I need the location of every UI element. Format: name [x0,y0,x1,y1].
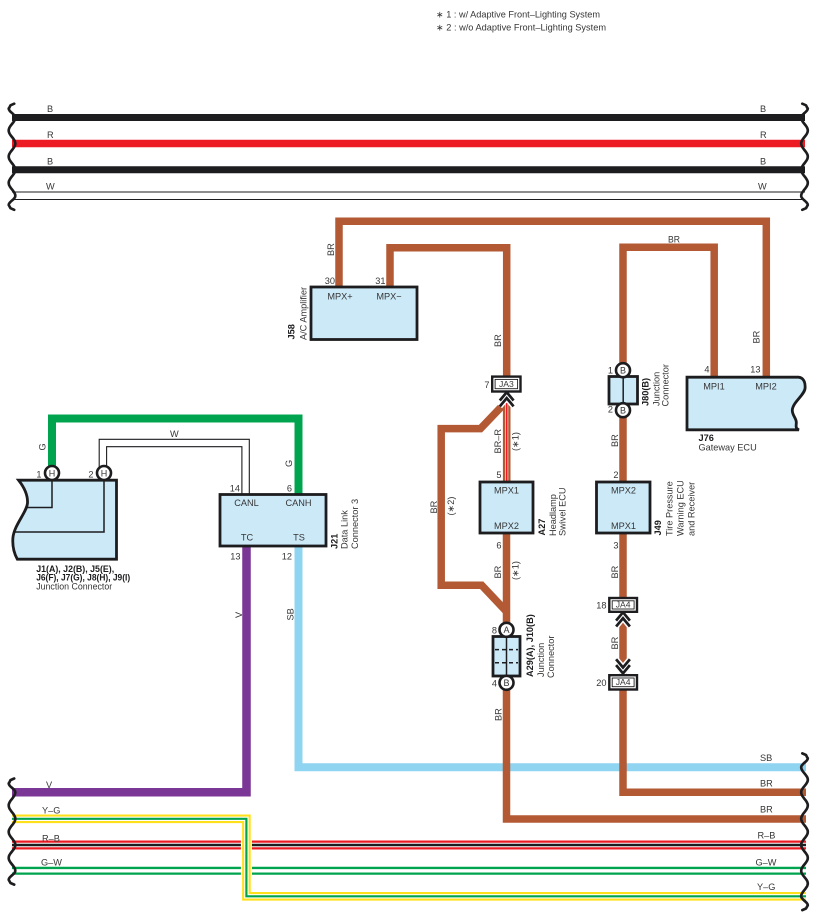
svg-text:G: G [284,460,294,467]
connector JA4 pin18 [609,598,637,612]
svg-text:MPX1: MPX1 [494,486,519,496]
svg-text:BR: BR [494,708,504,721]
svg-text:BR: BR [668,235,680,245]
svg-text:BR: BR [610,434,620,447]
wire BR (*2) bypass branch [441,404,505,611]
svg-text:CANH: CANH [285,498,311,508]
block J49 Tire Pressure Warning ECU [597,482,651,533]
pin circle B A29 [500,676,514,690]
svg-text:(∗2): (∗2) [446,497,456,516]
connector JA3 [492,377,520,392]
svg-text:A/C Amplifier: A/C Amplifier [299,287,309,340]
svg-text:4: 4 [492,679,497,689]
svg-text:4: 4 [704,365,709,375]
wire BR: A29 circle B down, right to edge [507,689,807,819]
svg-text:Tire Pressure: Tire Pressure [665,481,675,536]
svg-text:B: B [47,157,53,167]
svg-text:TC: TC [241,533,254,543]
break symbol bottom-left [9,779,16,885]
svg-text:A: A [503,625,509,635]
break symbol top-left [9,104,16,210]
break symbol bottom-right [801,753,808,910]
svg-text:2: 2 [613,470,618,480]
block J1 Junction Connector [13,480,117,559]
svg-text:B: B [760,104,766,114]
wire bus B (second) [12,166,805,173]
svg-text:TS: TS [293,533,305,543]
svg-text:J80(B): J80(B) [641,378,651,406]
svg-text:12: 12 [282,552,292,562]
svg-text:Data Link: Data Link [340,510,350,549]
svg-text:1: 1 [36,470,41,480]
svg-text:Junction Connector: Junction Connector [36,581,112,591]
pin circle B top J80 [616,363,630,377]
svg-text:14: 14 [230,484,240,494]
block J21 Data Link Connector 3 [220,495,326,547]
svg-text:JA4: JA4 [616,677,631,687]
svg-text:Connector: Connector [546,636,556,678]
svg-text:31: 31 [375,276,385,286]
svg-text:B: B [503,678,509,688]
svg-text:Y–G: Y–G [757,882,775,892]
svg-text:B: B [620,406,626,416]
svg-text:SB: SB [286,608,296,620]
svg-text:A29(A), J10(B): A29(A), J10(B) [525,614,535,677]
wire BR-R striped: JA3 to A27 MPX1 pin5 [503,392,511,483]
wire BR: J49 MPX1 down to JA4-18 [619,533,627,599]
svg-text:H: H [49,468,56,478]
svg-text:∗ 2 : w/o Adaptive Front–Light: ∗ 2 : w/o Adaptive Front–Lighting System [436,23,606,33]
wire BR top: J58 MPX+ riser, top run, down to J76 MPI2 [339,221,766,378]
svg-text:J58: J58 [287,324,297,339]
wire W from J1 pin2 to J21 CANL [99,439,249,494]
svg-text:7: 7 [484,380,489,390]
connector JA4 pin20 [609,675,637,689]
wire R-B bus [12,841,806,850]
wire BR: JA4-20 down, right to edge [623,689,806,792]
svg-text:B: B [47,104,53,114]
svg-text:BR: BR [760,805,773,815]
svg-text:MPX+: MPX+ [327,292,352,302]
svg-text:W: W [170,429,179,439]
svg-text:BR: BR [610,565,620,578]
svg-text:BR: BR [493,565,503,578]
svg-text:V: V [234,611,244,618]
svg-text:BR: BR [752,330,762,343]
svg-text:BR: BR [610,636,620,649]
svg-text:∗ 1 : w/ Adaptive Front–Lighti: ∗ 1 : w/ Adaptive Front–Lighting System [436,10,600,20]
wire BR: between JA4 connectors [619,611,627,676]
svg-text:20: 20 [596,678,606,688]
svg-text:J21: J21 [330,534,340,549]
svg-text:18: 18 [596,601,606,611]
svg-text:B: B [620,366,626,376]
pin circle A [500,623,514,637]
svg-text:B: B [760,157,766,167]
svg-text:BR: BR [326,243,336,256]
wire SB from J21 TS to right edge [299,545,807,767]
svg-text:W: W [46,182,55,192]
break symbol top-right [801,104,808,210]
pin circle H 1 [45,466,59,480]
svg-text:W: W [758,182,767,192]
svg-text:SB: SB [760,753,772,763]
svg-text:R–B: R–B [42,834,60,844]
svg-text:6: 6 [496,541,501,551]
svg-text:G–W: G–W [41,858,62,868]
inline connector arrows below JA4-18 [616,612,630,626]
svg-text:Connector: Connector [661,364,671,406]
svg-text:G–W: G–W [756,858,777,868]
inline connector arrows below JA3 [500,392,514,406]
svg-text:MPX1: MPX1 [611,521,636,531]
block J76 Gateway ECU [687,377,805,430]
svg-text:R–B: R–B [758,831,776,841]
svg-text:R: R [760,130,767,140]
svg-text:(∗1): (∗1) [511,561,521,580]
wire bus W [12,191,805,193]
svg-text:13: 13 [230,552,240,562]
inline connector arrows above JA4-20 [616,659,630,673]
svg-text:A27: A27 [537,519,547,536]
svg-text:Swivel ECU: Swivel ECU [558,488,568,537]
pin circle B bottom J80 [616,403,630,417]
svg-text:13: 13 [750,365,760,375]
wire BR: J58 MPX- up over to JA3 [390,248,507,378]
wire BR: A27 MPX2 pin6 down to A29 circle A [503,533,511,624]
svg-text:CANL: CANL [234,498,259,508]
block J80(B) Junction Connector [609,377,638,405]
svg-text:and Receiver: and Receiver [687,482,697,536]
svg-text:MPI1: MPI1 [703,382,724,392]
svg-text:Warning ECU: Warning ECU [676,480,686,536]
svg-text:H: H [101,468,108,478]
svg-text:5: 5 [496,470,501,480]
svg-text:Gateway ECU: Gateway ECU [699,443,757,453]
wire G-W bus [12,867,806,875]
wire bus R [12,140,805,148]
svg-text:Connector 3: Connector 3 [350,499,360,549]
svg-text:Y–G: Y–G [42,806,60,816]
svg-text:JA4: JA4 [616,600,631,610]
svg-text:MPI2: MPI2 [755,382,776,392]
svg-text:MPX2: MPX2 [494,521,519,531]
svg-text:JA3: JA3 [499,379,514,389]
svg-text:3: 3 [613,541,618,551]
svg-text:6: 6 [287,484,292,494]
svg-text:Headlamp: Headlamp [548,494,558,536]
svg-text:2: 2 [608,405,613,415]
svg-text:30: 30 [325,276,335,286]
wire Y-G bus [12,819,806,897]
svg-text:(∗1): (∗1) [511,432,521,451]
svg-text:R: R [47,130,54,140]
block A27 Headlamp Swivel ECU [480,482,533,533]
svg-text:BR: BR [760,779,773,789]
svg-text:BR–R: BR–R [493,429,503,454]
wire BR: J80 pin2 down to J49 MPX2 [619,416,627,483]
block A29(A) J10(B) junction grid [493,637,520,677]
svg-text:BR: BR [493,334,503,347]
wire BR: J80 pin1 loop to J76 MPI1 [623,247,714,378]
svg-text:8: 8 [492,626,497,636]
svg-text:J76: J76 [699,433,714,443]
svg-text:J49: J49 [653,520,663,535]
wire V from J21 TC to left edge [12,545,247,792]
svg-text:MPX−: MPX− [376,292,401,302]
svg-text:2: 2 [88,470,93,480]
pin circle H 2 [97,466,111,480]
svg-text:V: V [46,780,53,790]
svg-text:1: 1 [608,366,613,376]
wire G from J1 pin1 to J21 CANH [52,419,299,495]
svg-text:MPX2: MPX2 [611,486,636,496]
wire bus B (top) [12,114,805,121]
svg-text:BR: BR [429,500,439,513]
svg-text:G: G [38,443,48,450]
block J58 A/C Amplifier [311,287,417,340]
svg-text:Junction: Junction [536,643,546,677]
